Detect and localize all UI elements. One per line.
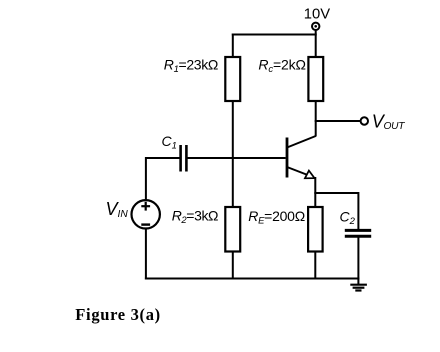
resistor R2 xyxy=(225,207,240,252)
svg-text:Rc=2kΩ: Rc=2kΩ xyxy=(258,56,305,75)
output terminal xyxy=(361,117,368,124)
wire bottom rail xyxy=(145,278,360,280)
wire C2 bottom to ground xyxy=(357,237,359,285)
transistor Q1 xyxy=(287,136,316,178)
wire base xyxy=(187,157,286,159)
resistor R1 xyxy=(225,57,240,101)
svg-text:Figure 3(a): Figure 3(a) xyxy=(75,305,161,324)
wire RE bottom xyxy=(314,252,316,280)
capacitor C1 xyxy=(181,145,187,172)
wire R2 bottom xyxy=(232,252,234,280)
svg-text:C1: C1 xyxy=(162,133,177,152)
supply terminal xyxy=(312,23,319,30)
wire VIN bottom xyxy=(145,229,147,280)
svg-text:R2=3kΩ: R2=3kΩ xyxy=(172,207,218,226)
wire VIN top to C1 xyxy=(146,158,180,200)
svg-text:10V: 10V xyxy=(304,6,330,22)
svg-text:VIN: VIN xyxy=(106,199,129,220)
resistor Rc xyxy=(308,57,323,101)
source VIN xyxy=(132,200,160,228)
capacitor C2 xyxy=(345,230,371,236)
wire output tap xyxy=(315,120,361,122)
wire emitter to C2 xyxy=(314,192,358,194)
wire R1 bottom to R2 top (base node column) xyxy=(232,101,234,207)
svg-text:VOUT: VOUT xyxy=(372,112,405,133)
resistor RE xyxy=(308,207,323,252)
ground xyxy=(350,285,367,291)
svg-text:C2: C2 xyxy=(340,208,356,227)
wire C2 top xyxy=(357,192,359,230)
wire emitter down to RE xyxy=(314,177,316,207)
svg-text:RE=200Ω: RE=200Ω xyxy=(248,208,305,227)
svg-text:R1=23kΩ: R1=23kΩ xyxy=(164,56,218,75)
wire down to R1 xyxy=(232,34,234,58)
wire Rc bottom to collector xyxy=(315,101,317,137)
wire supply vertical to Rc xyxy=(315,30,317,57)
wire supply horizontal xyxy=(232,34,317,36)
